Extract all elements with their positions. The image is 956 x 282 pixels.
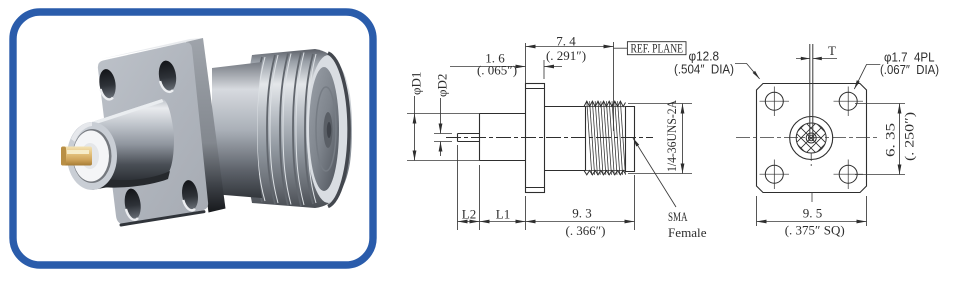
svg-text:(.504″ DIA): (.504″ DIA) bbox=[674, 62, 734, 77]
svg-text:(. 291″): (. 291″) bbox=[546, 48, 586, 63]
nut right rim shadow bbox=[328, 53, 349, 207]
1.6 dim bbox=[543, 60, 545, 79]
svg-text:φD1: φD1 bbox=[409, 72, 424, 95]
center circles bbox=[790, 117, 833, 160]
centerline bbox=[446, 137, 653, 139]
rear threaded nut bbox=[247, 49, 352, 208]
front view texts bbox=[785, 43, 917, 238]
side view texts bbox=[409, 34, 707, 241]
body cylinder bbox=[480, 114, 526, 161]
mounting holes bbox=[765, 92, 857, 183]
flange side bbox=[526, 84, 545, 193]
pin (gold) bbox=[61, 147, 92, 166]
phi12.8 leader bbox=[735, 64, 760, 79]
front view centerlines bbox=[736, 44, 878, 202]
nut end face bbox=[309, 67, 339, 191]
thread grooves bbox=[254, 53, 316, 207]
thread callout dim bbox=[628, 104, 692, 174]
arrowheads side view bbox=[413, 45, 685, 224]
side view dimensions bbox=[407, 42, 692, 230]
svg-text:L1: L1 bbox=[496, 207, 510, 222]
svg-text:Female: Female bbox=[668, 225, 707, 240]
9.5 dim bbox=[757, 196, 867, 226]
T contact lines bbox=[810, 44, 813, 141]
flange bottom shadow strip bbox=[121, 212, 204, 225]
7.4 dim bbox=[526, 42, 614, 131]
thread flank hatching bbox=[587, 101, 626, 175]
svg-text:φD2: φD2 bbox=[435, 74, 450, 97]
svg-text:(. 366″): (. 366″) bbox=[566, 223, 606, 238]
bottom dims L2 L1 9.3 bbox=[458, 145, 635, 230]
barrel underside shadow bbox=[95, 171, 170, 188]
svg-text:REF. PLANE: REF. PLANE bbox=[631, 41, 684, 55]
barrel face rim bbox=[67, 122, 117, 190]
flange front face bbox=[98, 42, 208, 224]
flange holes bbox=[97, 59, 199, 220]
front view dims bbox=[735, 59, 905, 227]
REF PLANE box bbox=[627, 42, 686, 55]
svg-text:1/4-36UNS-2A: 1/4-36UNS-2A bbox=[664, 99, 679, 172]
end cap bbox=[626, 107, 635, 172]
threads zigzag bbox=[584, 101, 626, 175]
square flange bbox=[757, 84, 867, 193]
pin rect bbox=[458, 134, 480, 142]
phiD1 dim bbox=[407, 96, 480, 161]
svg-text:6. 35: 6. 35 bbox=[883, 123, 898, 157]
hatch in center bbox=[781, 78, 841, 198]
svg-text:SMA: SMA bbox=[668, 209, 688, 224]
flange back/top strip bbox=[97, 38, 203, 62]
photo frame (blue rounded border) bbox=[13, 12, 373, 265]
svg-text:(. 250″): (. 250″) bbox=[902, 112, 917, 161]
nut cap outer bright rim bbox=[307, 55, 351, 203]
ref plane connector bbox=[614, 47, 628, 49]
ptfe white face bbox=[73, 129, 112, 183]
barrel bbox=[545, 107, 586, 171]
barrel top edge highlight bbox=[92, 99, 164, 125]
svg-text:(.067″ DIA): (.067″ DIA) bbox=[880, 62, 939, 77]
hole center marks bbox=[760, 87, 864, 190]
svg-text:7. 4: 7. 4 bbox=[556, 34, 576, 49]
phiD2 dim bbox=[434, 98, 452, 156]
svg-text:(. 375″ SQ): (. 375″ SQ) bbox=[785, 223, 845, 238]
svg-text:9. 5: 9. 5 bbox=[803, 206, 823, 221]
SMA Female leader bbox=[633, 138, 676, 207]
flange right side face bbox=[186, 38, 226, 213]
6.35 dim bbox=[855, 104, 905, 175]
svg-text:T: T bbox=[828, 43, 836, 58]
T dim bbox=[796, 58, 837, 60]
barrel-to-thread vertical bbox=[585, 107, 587, 171]
svg-text:L2: L2 bbox=[462, 207, 476, 222]
svg-text:9. 3: 9. 3 bbox=[572, 206, 592, 221]
collar between flange and nut bbox=[212, 62, 262, 198]
3D connector photo bbox=[61, 38, 352, 225]
front barrel bbox=[92, 99, 174, 190]
svg-text:(. 065″): (. 065″) bbox=[477, 63, 517, 78]
phi1.7 leader bbox=[854, 65, 880, 90]
